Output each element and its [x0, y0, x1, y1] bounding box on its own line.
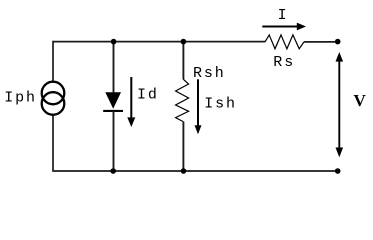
svg-text:Iph: Iph [4, 89, 37, 106]
wire diode column upper [113, 42, 115, 93]
node output negative terminal [335, 168, 341, 174]
arrow Id current [127, 77, 135, 127]
wire bottom rail [53, 170, 338, 172]
arrow I current [262, 23, 306, 31]
diode D [103, 92, 123, 111]
svg-text:Ish: Ish [204, 96, 237, 113]
wire top rail right segment [304, 41, 338, 43]
svg-text:Rs: Rs [273, 54, 295, 71]
node output positive terminal [335, 39, 341, 45]
node bottom-diode junction [110, 168, 116, 174]
arrow Ish current [195, 79, 202, 134]
svg-text:V: V [354, 91, 367, 110]
svg-text:Id: Id [137, 87, 159, 104]
node top-diode junction [111, 39, 117, 45]
wire Rsh column lower [182, 122, 184, 172]
wire left vertical lower [52, 115, 54, 172]
wire Rsh column upper [182, 42, 184, 80]
current source Iph [42, 82, 65, 115]
node bottom-Rsh junction [181, 168, 187, 174]
svg-text:I: I [278, 7, 289, 24]
wire diode column lower [113, 111, 115, 171]
resistor Rs [265, 35, 304, 49]
node top-Rsh junction [181, 39, 187, 45]
wire top rail [53, 41, 265, 43]
svg-text:Rsh: Rsh [193, 65, 226, 82]
wire left vertical upper [52, 41, 54, 82]
arrow V voltage (double-headed) [336, 52, 344, 157]
resistor Rsh [176, 79, 189, 121]
